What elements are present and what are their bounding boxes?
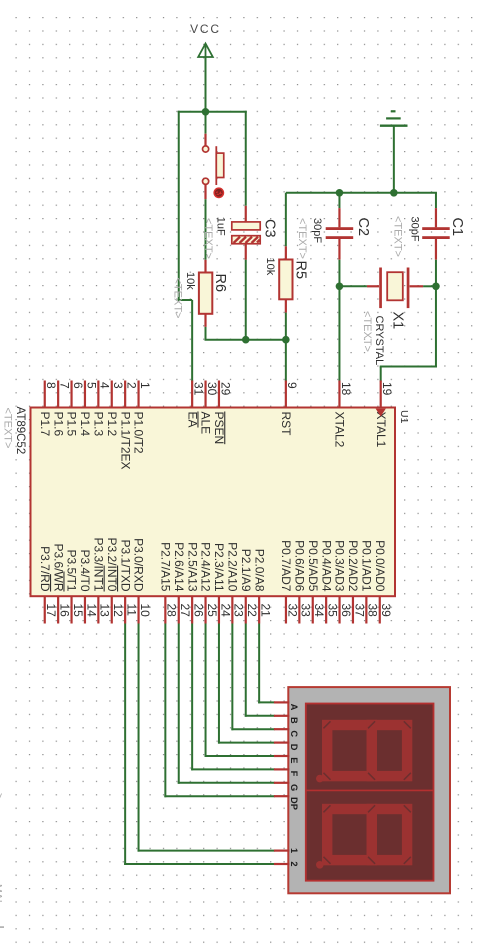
U1 pin 32 (P0.7/AD7) xyxy=(279,540,299,623)
wire U1 to display B xyxy=(245,624,275,717)
op: none / MCU U1 AT89C52 body xyxy=(31,408,396,597)
svg-text:P1.3: P1.3 xyxy=(91,412,105,437)
svg-text:E: E xyxy=(289,757,299,763)
U1 pin 8 (P1.7) xyxy=(38,381,58,437)
svg-text:P3.5/T1: P3.5/T1 xyxy=(65,549,79,591)
svg-text:10: 10 xyxy=(138,604,152,618)
svg-text:P3.7/RD: P3.7/RD xyxy=(38,546,52,592)
svg-text:36: 36 xyxy=(339,604,353,618)
svg-text:<TEXT>: <TEXT> xyxy=(361,311,373,352)
svg-text:24: 24 xyxy=(218,604,232,618)
svg-text:>: > xyxy=(0,793,5,799)
wire RST rail xyxy=(205,339,287,341)
svg-text:P0.1/AD1: P0.1/AD1 xyxy=(359,540,373,592)
U1 pin 14 (P3.4/T0) xyxy=(78,549,98,623)
wire EA branch vertical xyxy=(178,111,180,300)
wire U1 to display C xyxy=(231,624,275,731)
U1 pin 37 (P0.2/AD2) xyxy=(346,540,366,623)
wire GND rail xyxy=(286,192,437,194)
svg-text:VCC: VCC xyxy=(190,22,221,36)
svg-text:3: 3 xyxy=(111,382,125,389)
U1 pin 3 (P1.2) xyxy=(105,381,125,437)
svg-text:P3.6/WR: P3.6/WR xyxy=(51,543,65,591)
node VCC power symbol xyxy=(198,44,213,58)
U1 pin 13 (P3.3/INT1) xyxy=(91,537,111,623)
capacitor C3 polarized xyxy=(232,206,260,260)
U1 pin 7 (P1.6) xyxy=(51,381,71,437)
svg-text:26: 26 xyxy=(191,604,205,618)
U1 pin 29 (PSEN) xyxy=(212,381,232,445)
svg-text:10k: 10k xyxy=(184,272,196,290)
display inner panel xyxy=(306,704,434,881)
U1 pin 31 (EA) xyxy=(185,381,205,428)
svg-text:32: 32 xyxy=(285,604,299,618)
svg-text:38: 38 xyxy=(366,604,380,618)
svg-text:RST: RST xyxy=(279,412,293,437)
wire RST rail to pin9 xyxy=(285,340,287,382)
svg-text:P1.1/T2EX: P1.1/T2EX xyxy=(118,412,132,470)
svg-text:1: 1 xyxy=(138,382,152,389)
U1 pin 30 (ALE) xyxy=(199,381,219,435)
svg-text:<TEXT>: <TEXT> xyxy=(202,218,214,259)
junction crystal left xyxy=(336,283,344,291)
display pin D stub xyxy=(274,741,289,743)
svg-text:4: 4 xyxy=(98,382,112,389)
U1 pin 34 (P0.5/AD5) xyxy=(306,540,326,623)
U1 pin 28 (P2.7/A15) xyxy=(158,542,178,623)
svg-text:18: 18 xyxy=(339,382,353,396)
svg-text:25: 25 xyxy=(205,604,219,618)
svg-text:P0.4/AD4: P0.4/AD4 xyxy=(319,540,333,592)
display cell divider xyxy=(306,789,434,791)
svg-text:22: 22 xyxy=(245,604,259,618)
svg-text:MAI: MAI xyxy=(0,884,4,903)
wire R5 bottom xyxy=(285,313,287,340)
display pin 1 stub xyxy=(274,849,289,851)
svg-text:2: 2 xyxy=(289,861,299,866)
svg-text:XTAL1: XTAL1 xyxy=(374,412,388,448)
U1 pin 33 (P0.6/AD6) xyxy=(292,540,312,623)
wire top rail xyxy=(178,111,247,113)
svg-text:P3.4/T0: P3.4/T0 xyxy=(78,549,92,591)
U1 pin 11 (P3.1/TXD) xyxy=(118,539,138,623)
svg-text:27: 27 xyxy=(178,604,192,618)
svg-text:37: 37 xyxy=(352,604,366,618)
svg-text:<TEXT>: <TEXT> xyxy=(1,408,13,449)
svg-text:C3: C3 xyxy=(262,219,278,238)
junction GND stem xyxy=(390,189,398,197)
U1 pin 4 (P1.3) xyxy=(91,381,111,437)
svg-text:16: 16 xyxy=(57,604,71,618)
svg-text:B: B xyxy=(289,717,299,724)
resistor R6 xyxy=(199,260,212,327)
U1 pin 6 (P1.5) xyxy=(65,381,85,437)
wire U1 to display A xyxy=(258,624,275,704)
svg-text:39: 39 xyxy=(379,604,393,618)
display pin 2 stub xyxy=(274,863,289,865)
U1 pin 22 (P2.1/A9) xyxy=(239,549,259,624)
U1 pin 24 (P2.3/A11) xyxy=(212,543,232,623)
U1 pin 15 (P3.5/T1) xyxy=(65,549,85,623)
U1 pin 9 (RST) xyxy=(279,381,299,437)
svg-text:1uF: 1uF xyxy=(215,217,227,236)
svg-text:6: 6 xyxy=(71,382,85,389)
svg-text:10k: 10k xyxy=(264,258,276,276)
svg-text:R6: R6 xyxy=(212,274,228,293)
svg-text:EA: EA xyxy=(185,412,199,428)
wire U1 to display F xyxy=(191,624,275,771)
U1 pin 19 (XTAL1) xyxy=(374,381,394,448)
display pin B stub xyxy=(274,715,289,717)
junction C3 RST rail xyxy=(242,336,250,344)
U1 pin 12 (P3.2/INT0) xyxy=(105,537,125,623)
wire GND rail to R5 xyxy=(285,193,287,247)
svg-text:AT89C52: AT89C52 xyxy=(14,407,26,455)
wire VCC to C3 xyxy=(245,111,247,206)
U1 pin 21 (P2.0/A8) xyxy=(252,549,272,624)
display pin DP stub xyxy=(274,795,289,797)
svg-text:X1: X1 xyxy=(390,312,406,330)
svg-text:<TEXT>: <TEXT> xyxy=(296,218,308,259)
U1 pin 18 (XTAL2) xyxy=(333,381,353,448)
U1 pin 39 (P0.0/AD0) xyxy=(373,540,393,623)
U1 pin 10 (P3.0/RXD) xyxy=(132,538,152,623)
svg-text:P0.7/AD7: P0.7/AD7 xyxy=(279,540,293,592)
svg-text:15: 15 xyxy=(71,604,85,618)
U1 pin 16 (P3.6/WR) xyxy=(51,543,71,623)
wire XTAL1 horizontal xyxy=(380,366,437,368)
svg-text:P2.3/A11: P2.3/A11 xyxy=(212,543,226,592)
svg-text:1: 1 xyxy=(289,848,299,853)
svg-text:7: 7 xyxy=(57,382,71,389)
wire U1 to display E xyxy=(205,624,275,758)
svg-text:U1: U1 xyxy=(398,410,410,424)
U1 pin 1 (P1.0/T2) xyxy=(132,381,152,454)
svg-text:P3.3/INT1: P3.3/INT1 xyxy=(91,537,105,591)
svg-text:P1.7: P1.7 xyxy=(38,412,52,437)
svg-text:P0.2/AD2: P0.2/AD2 xyxy=(346,540,360,592)
svg-text:C2: C2 xyxy=(355,218,371,237)
svg-text:9: 9 xyxy=(285,382,299,389)
svg-text:14: 14 xyxy=(84,604,98,618)
U1 pin 5 (P1.4) xyxy=(78,381,98,437)
U1 pin 38 (P0.1/AD1) xyxy=(359,540,379,623)
wire U1 to display 2 xyxy=(124,624,275,866)
svg-text:P3.2/INT0: P3.2/INT0 xyxy=(105,537,119,591)
svg-text:P2.1/A9: P2.1/A9 xyxy=(239,549,253,592)
wire C3 to RST rail xyxy=(245,260,247,340)
svg-text:P2.4/A12: P2.4/A12 xyxy=(199,542,213,592)
wire EA jog horizontal xyxy=(178,299,192,301)
svg-text:P0.0/AD0: P0.0/AD0 xyxy=(373,540,387,592)
svg-text:<TEXT>: <TEXT> xyxy=(172,278,184,319)
pin19 arrowhead xyxy=(376,409,386,417)
display pin A stub xyxy=(274,701,289,703)
svg-text:C: C xyxy=(289,730,299,737)
U1 pin 36 (P0.3/AD3) xyxy=(333,540,353,623)
svg-text:33: 33 xyxy=(299,604,313,618)
wire crystal left lead xyxy=(339,285,366,287)
button interactive red dot xyxy=(213,187,224,198)
svg-text:XTAL2: XTAL2 xyxy=(333,412,347,448)
svg-text:12: 12 xyxy=(111,604,125,618)
svg-text:30pF: 30pF xyxy=(311,218,323,243)
display pin E stub xyxy=(274,755,289,757)
U1 pin 17 (P3.7/RD) xyxy=(38,546,58,623)
svg-text:8: 8 xyxy=(44,382,58,389)
svg-text:D: D xyxy=(289,744,299,751)
U1 pin 25 (P2.4/A12) xyxy=(199,542,219,623)
svg-text:P2.5/A13: P2.5/A13 xyxy=(185,542,199,592)
svg-text:21: 21 xyxy=(258,604,272,618)
wire C1 to crystal junction xyxy=(435,260,437,368)
wire XTAL1 down to pin19 xyxy=(380,367,382,382)
svg-text:DP: DP xyxy=(289,797,299,810)
svg-text:31: 31 xyxy=(191,382,205,396)
svg-text:11: 11 xyxy=(124,604,138,617)
wire VCC to button xyxy=(205,112,207,134)
svg-text:13: 13 xyxy=(98,604,112,618)
svg-text:5: 5 xyxy=(84,382,98,389)
svg-text:P1.6: P1.6 xyxy=(51,412,65,437)
junction crystal right xyxy=(432,283,440,291)
svg-text:A: A xyxy=(289,704,299,711)
ground symbol xyxy=(380,111,408,125)
junction VCC rail xyxy=(202,108,210,116)
svg-text:30pF: 30pF xyxy=(409,217,421,242)
wire R6 bottom xyxy=(205,327,207,340)
svg-text:19: 19 xyxy=(380,382,394,396)
svg-text:F: F xyxy=(289,771,299,777)
svg-text:17: 17 xyxy=(44,604,58,618)
wire U1 to display G xyxy=(178,624,275,784)
junction R5 RST rail xyxy=(282,336,290,344)
svg-text:P1.0/T2: P1.0/T2 xyxy=(132,412,146,454)
U1 pin 26 (P2.5/A13) xyxy=(185,542,205,623)
pushbutton reset switch xyxy=(203,134,224,200)
wire GND rail to C1 xyxy=(435,193,437,208)
clipped sheet dash xyxy=(0,926,4,928)
svg-text:28: 28 xyxy=(165,604,179,618)
junction C2 GND rail xyxy=(336,189,344,197)
svg-text:30: 30 xyxy=(205,382,219,396)
wire button to R6 xyxy=(205,199,207,260)
wire VCC stem xyxy=(205,57,207,112)
display pin C stub xyxy=(274,728,289,730)
display pin F stub xyxy=(274,768,289,770)
svg-text:35: 35 xyxy=(325,604,339,618)
svg-text:P1.2: P1.2 xyxy=(105,412,119,437)
svg-text:C1: C1 xyxy=(449,218,465,237)
wire U1 to display 1 xyxy=(138,624,275,852)
svg-text:PSEN: PSEN xyxy=(212,412,226,445)
svg-text:P3.1/TXD: P3.1/TXD xyxy=(118,539,132,591)
svg-text:P2.0/A8: P2.0/A8 xyxy=(252,549,266,592)
svg-text:23: 23 xyxy=(232,604,246,618)
wire U1 to display DP xyxy=(164,624,275,798)
display pin G stub xyxy=(274,782,289,784)
display digit 2 segments xyxy=(316,805,411,868)
capacitor C2 xyxy=(326,208,354,260)
U1 pin 2 (P1.1/T2EX) xyxy=(118,381,138,470)
svg-text:29: 29 xyxy=(218,382,232,396)
U1 pin 27 (P2.6/A14) xyxy=(172,542,192,623)
svg-text:<TEXT>: <TEXT> xyxy=(392,216,404,257)
svg-text:G: G xyxy=(289,784,299,791)
U1 pin 23 (P2.2/A10) xyxy=(225,542,245,623)
wire C2 to pin18 xyxy=(338,260,340,382)
svg-text:P1.5: P1.5 xyxy=(65,412,79,437)
wire U1 to display D xyxy=(218,624,275,744)
svg-text:2: 2 xyxy=(124,382,138,389)
7-segment display body xyxy=(288,687,450,893)
svg-text:P0.3/AD3: P0.3/AD3 xyxy=(333,540,347,592)
svg-text:P3.0/RXD: P3.0/RXD xyxy=(132,538,146,592)
svg-text:P0.6/AD6: P0.6/AD6 xyxy=(292,540,306,592)
svg-text:P2.2/A10: P2.2/A10 xyxy=(225,542,239,592)
wire crystal right lead xyxy=(423,285,436,287)
svg-text:R5: R5 xyxy=(293,261,309,280)
display digit 1 segments xyxy=(316,721,411,782)
svg-text:P0.5/AD5: P0.5/AD5 xyxy=(306,540,320,592)
svg-text:P1.4: P1.4 xyxy=(78,412,92,437)
crystal X1 xyxy=(367,268,423,309)
U1 pin 35 (P0.4/AD4) xyxy=(319,540,339,623)
svg-text:CRYSTAL: CRYSTAL xyxy=(373,316,385,366)
wire EA to pin31 xyxy=(191,300,193,382)
capacitor C1 xyxy=(422,208,450,260)
svg-text:34: 34 xyxy=(312,604,326,618)
svg-text:P2.6/A14: P2.6/A14 xyxy=(172,542,186,592)
wire GND rail to C2 xyxy=(338,193,340,208)
resistor R5 xyxy=(279,246,292,312)
svg-text:ALE: ALE xyxy=(199,412,213,435)
svg-text:P2.7/A15: P2.7/A15 xyxy=(158,542,172,592)
wire GND stem xyxy=(393,127,395,193)
